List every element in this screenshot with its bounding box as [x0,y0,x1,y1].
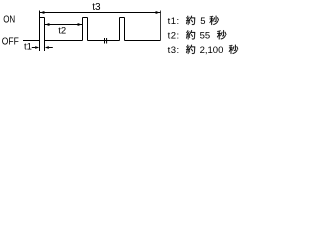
pulse 1 falling edge with extension [44,18,46,52]
pulse 2 top [83,17,88,19]
legend line 2 kanji byou [217,30,226,39]
wire OFF baseline segment 2 [45,40,83,42]
t2 arrowhead right [78,23,82,26]
t1 arrowhead pointing left [45,46,49,49]
svg-text:t2: t2 [58,26,66,37]
pulse 2 falling edge [87,18,89,41]
wire OFF baseline segment 3 [88,40,120,42]
pulse 1 top [40,17,45,19]
t3 arrowhead left [40,11,44,14]
pulse 1 rising edge with extensions [39,11,41,52]
svg-text:OFF: OFF [2,36,19,48]
t3 arrowhead right [156,11,160,14]
svg-text:t2:: t2: [168,31,180,42]
pulse 3 rising edge [119,18,121,41]
svg-text:5: 5 [200,16,205,27]
end-of-period extension line [160,11,162,41]
svg-text:t3: t3 [92,2,101,13]
pulse 3 falling edge [124,18,126,41]
svg-text:t3:: t3: [168,45,180,56]
svg-text:t1:: t1: [168,16,180,27]
t2 dimension line [45,24,82,26]
svg-text:ON: ON [3,14,15,26]
t3 dimension line [40,12,161,14]
wire OFF baseline segment 4 [125,40,161,42]
legend line 2 kanji yaku [186,30,195,39]
svg-text:2,100: 2,100 [200,45,224,56]
svg-text:55: 55 [200,31,211,42]
t2 arrowhead left [45,23,49,26]
legend line 3 kanji yaku [186,45,195,54]
legend line 1 kanji yaku [186,16,195,25]
t1 dimension tail right [49,47,53,49]
legend line 3 kanji byou [229,45,238,54]
wire OFF baseline segment 1 [23,40,40,42]
t1 dimension tail left [32,47,36,49]
t1 arrowhead pointing right [35,46,39,49]
pulse 2 rising edge [82,18,84,41]
pulse 3 top [120,17,125,19]
break mark tick 2 [106,38,108,44]
legend line 1 kanji byou [209,16,218,25]
svg-text:t1: t1 [24,42,32,53]
break mark tick 1 [104,38,106,44]
